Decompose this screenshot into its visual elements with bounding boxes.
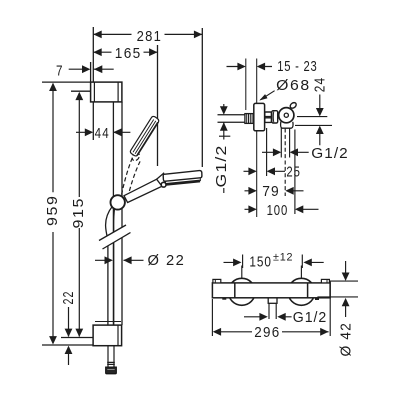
svg-text:24: 24 <box>311 77 328 93</box>
dim 44 line <box>76 131 130 133</box>
wire: wall line (x=256.7) <box>256 59 258 218</box>
handle grip edge lines <box>235 283 308 298</box>
nub below bar right <box>315 298 319 300</box>
nub below bar left <box>222 298 226 300</box>
dim 100 line <box>245 208 319 210</box>
top wall bracket <box>91 82 122 102</box>
supply pipe <box>218 115 246 123</box>
phantom handle: dashed outline <box>122 157 133 194</box>
swivel nub <box>289 101 297 109</box>
shower head body <box>163 171 202 182</box>
svg-text:G1/2: G1/2 <box>293 309 327 326</box>
center outlet tab <box>268 298 277 304</box>
svg-text:915: 915 <box>70 197 87 229</box>
svg-text:281: 281 <box>137 28 163 45</box>
wire: bottom reference line y=345 <box>42 344 93 346</box>
handle left <box>228 278 255 305</box>
dim 281 line <box>93 33 202 35</box>
break mark: white gap band across rail <box>98 224 132 249</box>
dim 15-23 line <box>227 66 273 68</box>
wire: handle centre extension lines <box>242 266 302 279</box>
svg-text:150: 150 <box>249 254 272 271</box>
phantom head: solid slab with hatching <box>130 116 158 156</box>
wire: diam42 reference lines <box>317 281 358 297</box>
leader diam68 <box>260 91 274 100</box>
wire: extension line 15-23 left (x=245.8) <box>245 59 247 111</box>
wire: extension line 165 right (x=157.5) <box>157 45 159 166</box>
dim 22 line <box>68 307 70 365</box>
handle right <box>288 278 315 305</box>
svg-text:25: 25 <box>286 164 300 181</box>
wire: 150 extension lines <box>243 255 303 269</box>
connector block upper <box>265 112 272 117</box>
dim 7 line <box>69 68 114 70</box>
joint ball <box>161 182 166 187</box>
wire: extension line left of rail (x=93.3) <box>92 27 94 140</box>
dim diam42 vertical <box>345 261 347 317</box>
hand shower actual position (horizontal) <box>124 171 202 203</box>
wire: 915 reference line y=91.2 <box>71 90 91 92</box>
svg-text:G1/2: G1/2 <box>311 145 348 162</box>
wire: G1/2 extension lines <box>269 303 276 319</box>
wall tab left <box>213 279 221 283</box>
svg-text:15 - 23: 15 - 23 <box>277 58 317 75</box>
svg-text:165: 165 <box>115 45 142 62</box>
wire: 296 extension lines <box>212 281 330 337</box>
dim G1/2 right line <box>262 151 309 153</box>
svg-text:G1/2: G1/2 <box>213 145 230 188</box>
dim 24 vertical <box>319 95 321 146</box>
dim 165 line <box>93 51 157 53</box>
thermostat bar body <box>212 283 330 298</box>
svg-text:100: 100 <box>267 202 289 219</box>
svg-text:Ø 42: Ø 42 <box>337 322 354 356</box>
arrowheads left drawing <box>93 31 101 39</box>
arrowheads top-right drawing <box>237 63 245 71</box>
wall tab right <box>321 279 329 283</box>
escutcheon <box>254 103 265 130</box>
svg-text:79: 79 <box>262 183 280 200</box>
spray face plate <box>166 181 200 184</box>
outlet ball joint <box>279 108 294 123</box>
shower handle <box>124 179 162 203</box>
shower rail: vertical bar lines <box>113 102 122 325</box>
svg-text:Ø68: Ø68 <box>276 77 311 94</box>
svg-text:7: 7 <box>56 62 63 79</box>
wire: top reference line y=82.1 <box>42 81 91 83</box>
shower hose: curve from slider down left of rail <box>106 207 113 326</box>
wire: extension line 281 right (x=202.3) <box>201 28 203 167</box>
svg-text:296: 296 <box>254 324 280 341</box>
svg-text:959: 959 <box>44 195 61 227</box>
dim 296 line <box>221 331 329 333</box>
dim G1/2 line <box>244 316 292 318</box>
dim 915 line <box>78 93 80 337</box>
hose nut <box>272 111 278 123</box>
break mark: diagonal line 2 <box>103 233 131 250</box>
dim diam22 line <box>95 259 144 261</box>
bottom wall bracket <box>93 322 122 346</box>
connector block lower <box>265 118 272 123</box>
wire: extension lines below outlet <box>266 128 268 176</box>
svg-text:±12: ±12 <box>273 251 293 263</box>
hose end below bottom bracket <box>106 346 117 374</box>
hose nut (dark) <box>106 367 117 374</box>
break mark: diagonal line 1 <box>99 225 126 241</box>
svg-text:44: 44 <box>95 125 110 142</box>
threaded nipple <box>245 114 254 124</box>
dim G1/2 left vertical <box>223 104 225 193</box>
shower cone joint <box>157 173 166 186</box>
svg-text:22: 22 <box>60 291 77 305</box>
dim 150 line <box>224 261 324 263</box>
dim 79 line <box>245 190 304 192</box>
wire: extension line 7 left (x=90.6) <box>90 62 92 82</box>
dim 959 line <box>52 85 54 344</box>
wire: 22-dim reference line y=337.5 <box>61 337 93 339</box>
wire: 24 reference lines <box>295 117 332 126</box>
arrowheads bottom-right drawing <box>233 259 241 267</box>
phantom joint: dashed ellipse <box>131 151 141 162</box>
svg-text:Ø 22: Ø 22 <box>148 252 186 269</box>
hand shower in raised position (phantom) <box>122 116 159 197</box>
dim 25 line <box>244 170 286 172</box>
slider pivot on rail <box>111 195 125 209</box>
outlet foot <box>281 122 293 129</box>
